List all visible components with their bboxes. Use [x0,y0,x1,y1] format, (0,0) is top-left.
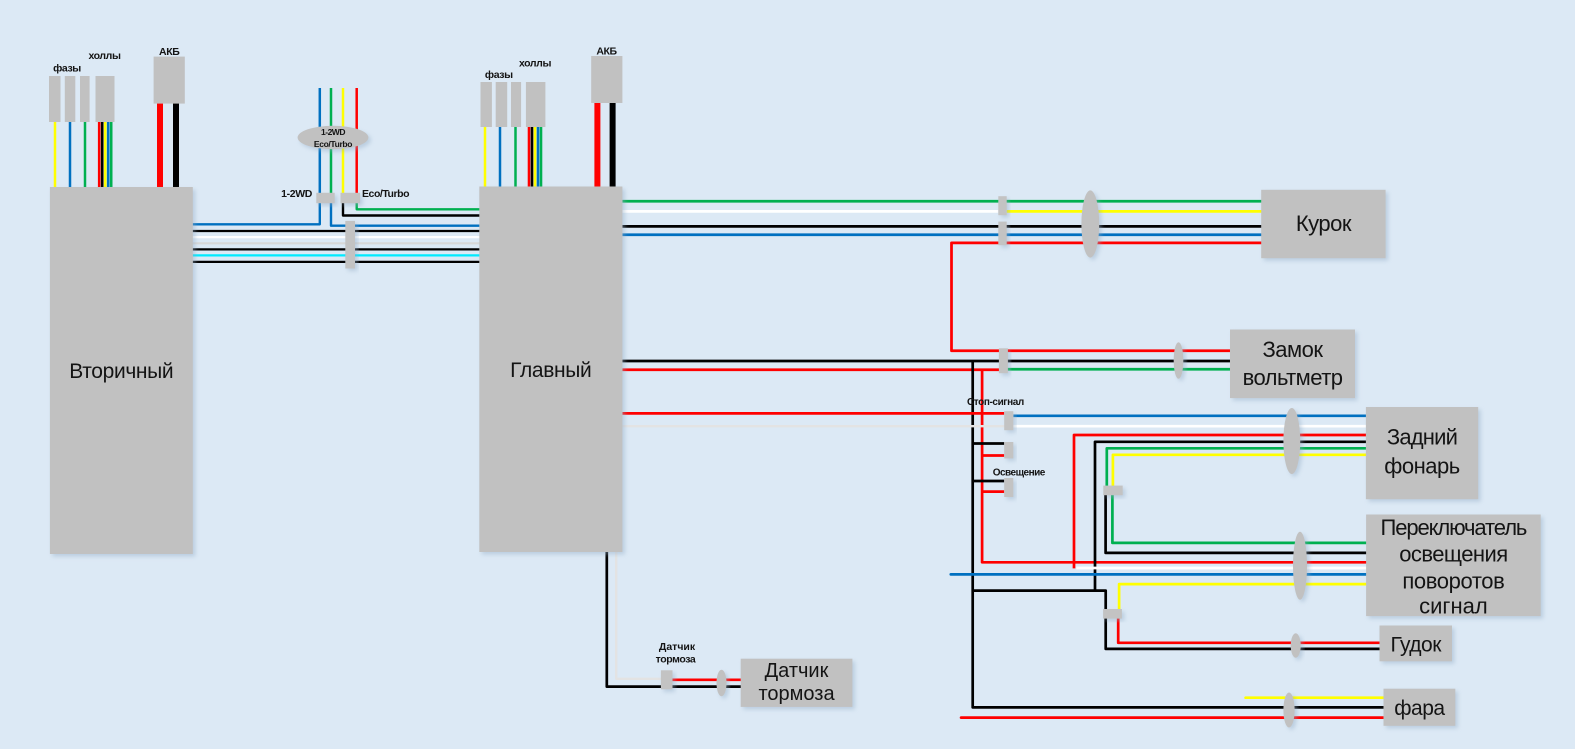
svg-text:поворотов: поворотов [1402,569,1504,594]
svg-text:фазы: фазы [53,63,81,75]
svg-text:Курок: Курок [1296,211,1352,236]
svg-text:Освещение: Освещение [993,468,1046,479]
svg-text:Замок: Замок [1262,337,1323,362]
svg-text:Вторичный: Вторичный [69,360,173,383]
svg-text:АКБ: АКБ [596,46,617,58]
svg-text:вольтметр: вольтметр [1243,365,1343,390]
svg-text:фара: фара [1394,697,1445,720]
svg-text:1-2WD: 1-2WD [321,127,345,137]
svg-text:холлы: холлы [88,50,120,62]
svg-text:Стоп-сигнал: Стоп-сигнал [967,397,1024,408]
svg-text:Датчик: Датчик [659,641,696,653]
svg-text:АКБ: АКБ [159,46,180,58]
svg-text:1-2WD: 1-2WD [281,188,313,200]
svg-text:сигнал: сигнал [1419,594,1488,619]
svg-text:Главный: Главный [510,359,591,382]
svg-text:фазы: фазы [485,69,513,81]
svg-text:Eco/Turbo: Eco/Turbo [314,139,352,149]
svg-text:Переключатель: Переключатель [1381,515,1527,540]
svg-text:тормоза: тормоза [758,683,835,705]
svg-text:фонарь: фонарь [1384,454,1459,479]
svg-text:освещения: освещения [1399,542,1507,567]
svg-text:Датчик: Датчик [765,660,829,682]
svg-text:тормоза: тормоза [656,654,696,666]
svg-text:Гудок: Гудок [1391,634,1443,657]
svg-text:Задний: Задний [1387,425,1457,450]
svg-text:холлы: холлы [519,58,551,70]
svg-text:Eco/Turbo: Eco/Turbo [362,188,409,200]
